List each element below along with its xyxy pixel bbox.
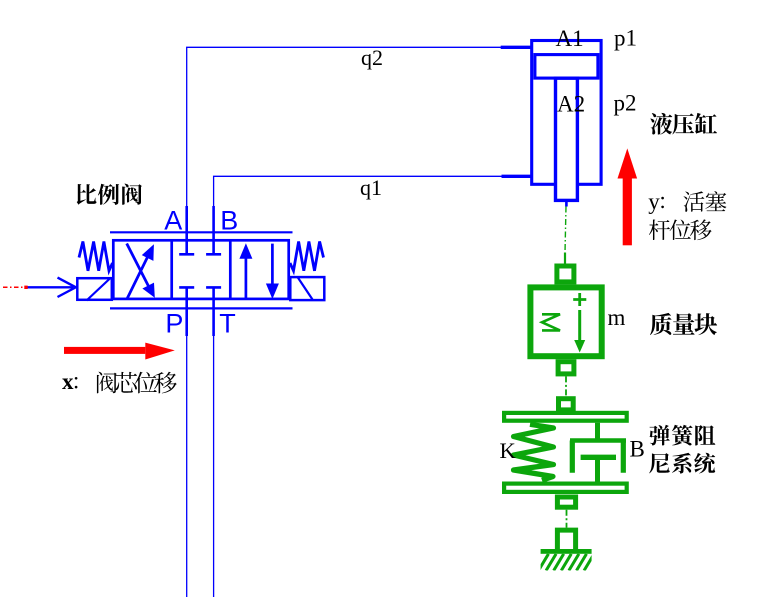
svg-text:B: B bbox=[220, 206, 238, 236]
svg-text:x: x bbox=[62, 369, 74, 394]
svg-text:T: T bbox=[219, 309, 236, 339]
svg-text:q2: q2 bbox=[361, 45, 383, 70]
svg-text:m: m bbox=[608, 305, 626, 330]
svg-text:q1: q1 bbox=[360, 175, 382, 200]
svg-text:A: A bbox=[164, 206, 182, 236]
svg-text:P: P bbox=[165, 309, 183, 339]
svg-text:p2: p2 bbox=[614, 90, 637, 115]
svg-text:A2: A2 bbox=[557, 91, 585, 116]
svg-text:B: B bbox=[630, 437, 645, 462]
svg-text:K: K bbox=[500, 438, 517, 463]
svg-text:y: y bbox=[648, 189, 660, 214]
svg-text:p1: p1 bbox=[614, 26, 637, 51]
svg-text:A1: A1 bbox=[556, 26, 584, 51]
